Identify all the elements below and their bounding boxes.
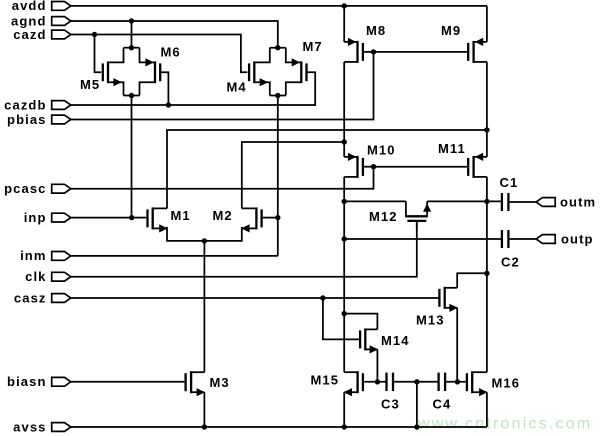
wire M14 drain up <box>344 314 377 330</box>
pin inm <box>52 252 71 261</box>
wire M13 source down <box>456 308 458 382</box>
node C3-C4 avss junction <box>414 379 419 384</box>
wire outp node down to M15 drain <box>343 201 345 372</box>
node M2 gate junction <box>275 215 280 220</box>
wire M16 source to avss <box>486 392 488 427</box>
node M10-M11 gate pcasc junction <box>371 164 376 169</box>
wire avdd rail <box>71 5 487 7</box>
wire clk <box>71 222 417 277</box>
svg-text:M4: M4 <box>227 80 247 95</box>
wire outm rail left <box>344 200 406 202</box>
svg-text:outm: outm <box>560 194 596 209</box>
wire M1 source to tail <box>167 227 204 241</box>
transistor M3 <box>190 371 192 393</box>
wire M3 source to avss <box>203 392 205 427</box>
svg-text:M7: M7 <box>303 39 323 54</box>
wire M2 gate stub <box>263 217 278 219</box>
wire pbias rail <box>71 52 374 120</box>
svg-text:pcasc: pcasc <box>4 181 46 196</box>
wire casz <box>71 297 439 299</box>
pin casz <box>52 294 71 303</box>
svg-text:pbias: pbias <box>7 112 46 127</box>
wire agnd rail <box>71 21 278 48</box>
transistor M11 <box>472 156 474 178</box>
wire M8 gate stub <box>364 51 373 53</box>
capacitor C4 <box>437 373 439 391</box>
wire outp rail <box>344 238 502 240</box>
svg-text:avss: avss <box>13 419 46 434</box>
svg-text:C4: C4 <box>433 397 452 412</box>
svg-text:cazd: cazd <box>13 27 46 42</box>
wire M8 source to avdd <box>343 6 345 42</box>
svg-text:M8: M8 <box>366 23 386 38</box>
svg-text:www.cntronics.com: www.cntronics.com <box>417 416 592 433</box>
node M13 source junction <box>455 379 460 384</box>
node M13 drain junction <box>484 271 489 276</box>
svg-text:M2: M2 <box>213 208 233 223</box>
wire TG1 bottom to inp node <box>131 96 133 218</box>
wire M2 drain riser <box>242 142 344 208</box>
svg-text:casz: casz <box>14 290 47 305</box>
node avss-M15 junction <box>342 424 347 429</box>
transistor M16 <box>471 371 473 393</box>
node M10 drain junction <box>342 199 347 204</box>
wire M1 drain riser <box>167 130 487 208</box>
node outp-M15 junction <box>342 236 347 241</box>
pin pcasc <box>52 184 71 193</box>
transistor M8 <box>356 41 358 63</box>
pin outm <box>536 198 555 207</box>
svg-text:M3: M3 <box>210 375 230 390</box>
wire inp <box>71 217 132 219</box>
capacitor C3 <box>385 373 387 391</box>
pin pbias <box>52 115 71 124</box>
pin biasn <box>52 377 71 386</box>
node avdd-M8 junction <box>342 3 347 8</box>
wire tail to M3 drain <box>203 241 205 372</box>
svg-text:inp: inp <box>24 210 47 225</box>
wire M10 gate stub <box>364 166 373 168</box>
capacitor C2 <box>501 230 503 248</box>
wire M8-M9 gate wire <box>374 51 468 53</box>
pin outp <box>536 235 555 244</box>
wire M10-M11 gate wire <box>374 166 468 168</box>
svg-text:M13: M13 <box>416 313 445 328</box>
svg-text:M11: M11 <box>438 141 466 156</box>
transistor M13 <box>444 287 446 309</box>
transistor M4 and M7 transmission gate <box>270 47 286 49</box>
svg-text:C3: C3 <box>381 397 400 412</box>
wire M10 drain to rail <box>343 177 345 202</box>
svg-text:M15: M15 <box>311 373 340 388</box>
node agnd-TG1 junction <box>129 18 134 23</box>
node tail junction <box>202 238 207 243</box>
svg-text:inm: inm <box>20 248 46 263</box>
pin clk <box>52 272 71 281</box>
wire cazd rail <box>71 35 248 73</box>
wire M6 gate to cazdb <box>161 72 169 105</box>
capacitor C1 <box>501 193 503 211</box>
pin avdd <box>52 2 71 11</box>
node M14 drain junction <box>342 311 347 316</box>
pin cazdb <box>52 101 71 110</box>
svg-text:M12: M12 <box>369 209 398 224</box>
node M11 drain junction <box>484 199 489 204</box>
wire M9 source to avdd <box>486 6 488 42</box>
wire biasn <box>71 381 185 383</box>
node M2 drain junction <box>342 139 347 144</box>
svg-text:M1: M1 <box>171 208 191 223</box>
node cazd-M5 junction <box>92 32 97 37</box>
wire C2 to outp pin <box>508 238 536 240</box>
wire M9 drain to M11 source <box>486 62 488 157</box>
transistor M9 <box>472 41 474 63</box>
svg-text:M9: M9 <box>441 23 461 38</box>
transistor M15 <box>356 371 358 393</box>
svg-text:avdd: avdd <box>12 0 47 13</box>
node casz-M14 junction <box>320 295 325 300</box>
wire M8 drain to M10 source <box>343 62 345 157</box>
svg-text:M14: M14 <box>381 333 410 348</box>
node M8-M9 gate pbias junction <box>371 49 376 54</box>
wire M15 source to avss <box>343 392 345 427</box>
transistor M14 <box>364 328 366 350</box>
transistor M5 and M6 transmission gate <box>124 47 140 49</box>
wire M2 source to tail <box>204 227 241 241</box>
node inp junction <box>129 215 134 220</box>
svg-text:M10: M10 <box>367 143 396 158</box>
svg-text:M16: M16 <box>492 376 521 391</box>
wire M14 source down <box>376 349 378 381</box>
pin avss <box>52 423 71 432</box>
wire cazdb rail <box>71 72 315 105</box>
svg-text:M5: M5 <box>80 77 100 92</box>
wire casz branch to M14 gate <box>323 298 359 339</box>
transistor M2 <box>255 207 257 229</box>
pin cazd <box>52 30 71 39</box>
wire M1 gate from inp node <box>132 217 147 219</box>
pin inp <box>52 213 71 222</box>
wire inm <box>71 255 278 257</box>
node avss-C3C4 junction <box>414 424 419 429</box>
wire agnd branch to M5/M6 gate top <box>131 21 133 48</box>
wire C1 to outm pin <box>508 201 536 203</box>
wire M15 gate to C3 <box>364 381 386 383</box>
svg-text:cazdb: cazdb <box>4 97 46 112</box>
node M1 drain junction <box>484 127 489 132</box>
svg-text:biasn: biasn <box>7 374 46 389</box>
node cazdb-M6 junction <box>166 102 171 107</box>
node M14 source junction <box>375 379 380 384</box>
node avss-M3 junction <box>202 424 207 429</box>
wire M13 drain up <box>457 273 487 288</box>
wire C3-C4 node to avss <box>416 382 418 427</box>
transistor M12 <box>405 215 428 217</box>
wire C4 to M16 gate <box>445 381 466 383</box>
svg-text:C2: C2 <box>501 255 520 270</box>
wire avss rail <box>71 426 487 428</box>
wire outm rail right <box>427 200 502 202</box>
wire pcasc rail <box>71 167 374 189</box>
wire cazd branch to M5 gate <box>95 35 102 73</box>
wire C3 to C4 <box>393 381 439 383</box>
pin agnd <box>52 17 71 26</box>
transistor M10 <box>356 156 358 178</box>
svg-text:clk: clk <box>25 269 46 284</box>
wire TG2 bottom to M2 gate and inm <box>277 96 279 256</box>
svg-text:C1: C1 <box>500 175 519 190</box>
transistor M1 <box>152 207 154 229</box>
svg-text:M6: M6 <box>161 45 181 60</box>
wire M11 drain down <box>486 177 488 372</box>
svg-text:outp: outp <box>561 231 594 246</box>
